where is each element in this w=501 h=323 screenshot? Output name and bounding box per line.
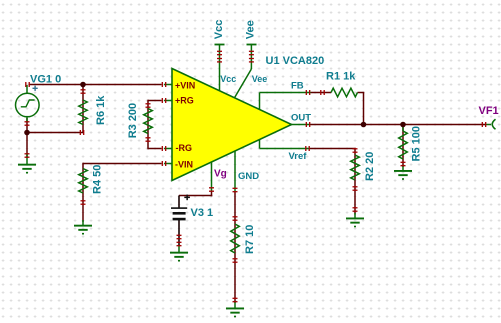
svg-text:Vee: Vee xyxy=(252,74,268,84)
svg-text:Vcc: Vcc xyxy=(213,20,225,40)
svg-text:Vee: Vee xyxy=(245,20,257,39)
svg-text:Vg: Vg xyxy=(214,168,227,179)
svg-text:-VIN: -VIN xyxy=(175,160,193,170)
svg-text:V3 1: V3 1 xyxy=(191,207,214,219)
svg-text:VG1 0: VG1 0 xyxy=(30,74,61,86)
svg-text:-RG: -RG xyxy=(176,143,193,153)
svg-text:Vcc: Vcc xyxy=(220,74,236,84)
svg-text:R4 50: R4 50 xyxy=(91,165,103,194)
svg-text:R5 100: R5 100 xyxy=(411,126,423,161)
svg-text:R6 1k: R6 1k xyxy=(95,95,107,125)
svg-text:R7 10: R7 10 xyxy=(244,225,256,254)
svg-text:GND: GND xyxy=(238,171,259,182)
svg-text:OUT: OUT xyxy=(291,112,311,123)
svg-text:VF1: VF1 xyxy=(479,105,499,117)
svg-text:+VIN: +VIN xyxy=(175,80,195,90)
svg-text:R1 1k: R1 1k xyxy=(326,71,356,83)
svg-text:FB: FB xyxy=(291,80,304,91)
svg-text:Vref: Vref xyxy=(289,151,308,162)
svg-text:R2 20: R2 20 xyxy=(364,152,376,181)
svg-text:R3 200: R3 200 xyxy=(127,103,139,138)
svg-text:+RG: +RG xyxy=(175,95,194,105)
svg-text:U1 VCA820: U1 VCA820 xyxy=(266,55,325,67)
